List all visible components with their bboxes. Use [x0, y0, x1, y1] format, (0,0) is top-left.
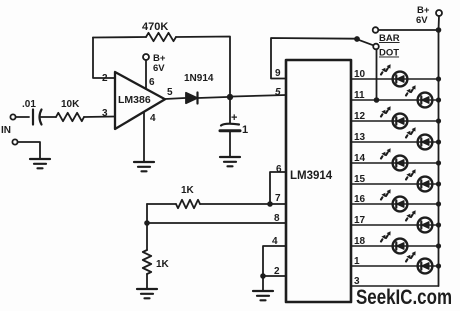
wire pin 3 row [351, 285, 439, 287]
svg-text:9: 9 [275, 68, 281, 79]
ground [253, 291, 273, 300]
svg-text:IN: IN [1, 125, 11, 136]
svg-text:+: + [231, 112, 237, 124]
LED row 16 [393, 197, 408, 212]
node rail row 17 [436, 222, 441, 227]
svg-text:1: 1 [242, 124, 248, 136]
wire pin 6 [145, 60, 147, 89]
svg-text:1K: 1K [156, 259, 170, 270]
node pin8 junction [144, 220, 150, 226]
wire [16, 116, 29, 118]
node switch pole [354, 36, 360, 42]
node dot-mode junction on pin 11 [374, 97, 380, 103]
node pin6-pin7 junction [267, 201, 273, 207]
svg-text:18: 18 [354, 236, 366, 247]
LED rows generated [351, 64, 441, 287]
svg-text:LM386: LM386 [118, 94, 151, 106]
svg-text:DOT: DOT [379, 48, 399, 59]
svg-text:7: 7 [275, 193, 281, 204]
wire pin 15 row [351, 183, 439, 185]
switch dot throw [373, 44, 379, 50]
node rail top junction [436, 27, 442, 33]
wire [146, 204, 148, 250]
wire [147, 203, 176, 205]
wire dot-mode to pin 11 [376, 49, 378, 100]
wire [18, 142, 40, 158]
ground [134, 162, 154, 171]
wire [84, 116, 115, 119]
resistor R3 1K [176, 200, 200, 208]
svg-text:17: 17 [354, 215, 366, 226]
wire pin 4 [263, 246, 286, 276]
svg-text:6: 6 [149, 77, 155, 88]
LED row 13 [418, 135, 433, 150]
svg-text:5: 5 [167, 87, 173, 98]
ground [30, 159, 50, 168]
IC U2 LM3914 body [286, 60, 351, 302]
wire output pin 5 [165, 98, 185, 99]
wire pin 7 [200, 203, 286, 205]
wire B+ rail [438, 16, 441, 286]
LED row 10 [393, 72, 408, 87]
svg-text:470K: 470K [142, 21, 168, 33]
wire pin 17 row [351, 224, 439, 226]
wire [176, 37, 230, 94]
svg-text:6: 6 [276, 164, 282, 175]
resistor R4 1K [143, 250, 151, 274]
svg-text:3: 3 [354, 276, 360, 287]
svg-text:4: 4 [150, 113, 156, 124]
input ground terminal [12, 139, 17, 144]
resistor R1 470K [146, 33, 176, 41]
capacitor C2 1uF [229, 100, 231, 123]
ground [137, 289, 157, 298]
wire [41, 116, 56, 118]
wire pin 9 [271, 38, 355, 79]
LED row 1 [418, 259, 433, 274]
wire pin 13 row [351, 141, 439, 143]
svg-text:1K: 1K [181, 185, 195, 196]
capacitor .01 [32, 110, 34, 125]
wire pin2 feedback left [93, 38, 115, 79]
wire pin 1 row [351, 265, 439, 267]
svg-text:4: 4 [272, 236, 278, 247]
B+ terminal top right [436, 10, 442, 16]
LED row 11 [418, 93, 433, 108]
node rail row 12 [436, 118, 441, 123]
wire pin 18 row [351, 245, 439, 247]
svg-text:15: 15 [354, 174, 366, 185]
wire pin 10 row [351, 78, 439, 80]
wire pin 2 [263, 275, 286, 277]
svg-text:.01: .01 [22, 99, 36, 110]
wire [262, 276, 264, 290]
svg-text:14: 14 [354, 153, 366, 164]
svg-text:2: 2 [274, 266, 280, 277]
svg-text:3: 3 [102, 108, 108, 119]
svg-text:LM3914: LM3914 [290, 170, 333, 182]
wire pin 4 [143, 112, 145, 161]
input terminal IN [10, 114, 15, 119]
svg-text:6V: 6V [153, 63, 165, 74]
op-amp U1 LM386 [115, 72, 165, 129]
svg-text:1: 1 [354, 256, 360, 267]
svg-text:11: 11 [354, 90, 365, 101]
svg-text:2: 2 [102, 73, 108, 84]
svg-text:16: 16 [354, 194, 366, 205]
LED row 18 [393, 239, 408, 254]
wire pin 16 row [351, 203, 439, 205]
wire pin 11 row [351, 99, 439, 101]
ground [220, 157, 240, 166]
svg-text:10: 10 [354, 69, 366, 80]
wire [146, 274, 148, 288]
LED row 15 [418, 177, 433, 192]
svg-text:SeekIC.com: SeekIC.com [356, 286, 452, 309]
svg-text:5: 5 [275, 87, 281, 98]
node pin2-pin4 junction [260, 273, 266, 279]
wire pin 12 row [351, 120, 439, 122]
wire pin 14 row [351, 162, 439, 164]
svg-text:6V: 6V [416, 15, 428, 26]
svg-text:1N914: 1N914 [184, 73, 214, 84]
wire pin 6 [270, 172, 286, 204]
node rail row 13 [436, 139, 441, 144]
wire pin 8 [147, 222, 286, 224]
node rail row 16 [436, 201, 441, 206]
LED row 12 [393, 114, 408, 129]
svg-text:12: 12 [354, 111, 366, 122]
node rail row 15 [436, 181, 441, 186]
wire [378, 29, 436, 31]
svg-text:10K: 10K [61, 99, 80, 110]
resistor 10K [56, 113, 84, 121]
wire feedback top [93, 36, 146, 39]
node rail row 1 [436, 263, 441, 268]
svg-text:BAR: BAR [379, 33, 400, 44]
node output junction [227, 94, 233, 100]
wire to LM3914 pin 5 [233, 95, 286, 97]
B+ terminal at LM386 pin 6 [143, 54, 149, 60]
node rail row 14 [436, 160, 441, 165]
LED row 17 [418, 218, 433, 233]
switch S1 BAR/DOT: bar throw [373, 27, 379, 33]
node rail row 10 [436, 76, 441, 81]
wire [198, 97, 227, 98]
node rail row 18 [436, 243, 441, 248]
svg-text:13: 13 [354, 132, 366, 143]
diode D1 1N914 [186, 93, 197, 103]
node rail row 11 [436, 97, 441, 102]
LED row 14 [393, 156, 408, 171]
svg-text:8: 8 [274, 213, 280, 224]
switch arm [359, 40, 374, 46]
